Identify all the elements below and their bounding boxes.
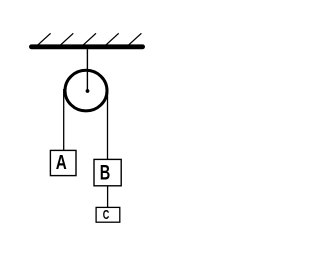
svg-text:B: B	[100, 162, 111, 185]
string B to c	[107, 186, 109, 208]
ceiling bar	[31, 44, 142, 49]
block A box	[50, 150, 76, 175]
svg-text:C: C	[103, 207, 110, 222]
block B box	[94, 159, 121, 185]
ceiling hatch 3	[83, 33, 96, 45]
svg-text:A: A	[56, 152, 67, 174]
block c box	[96, 207, 120, 222]
ceiling hatch 2	[60, 33, 73, 45]
ceiling hatch 5	[128, 33, 141, 45]
pulley hub dot	[86, 89, 90, 93]
left string to block A	[63, 89, 65, 150]
ceiling hatch 1	[38, 33, 51, 45]
axle support wire	[86, 49, 88, 91]
pulley wheel	[65, 70, 107, 111]
right string to block B	[107, 89, 109, 159]
ceiling hatch 4	[106, 33, 119, 45]
